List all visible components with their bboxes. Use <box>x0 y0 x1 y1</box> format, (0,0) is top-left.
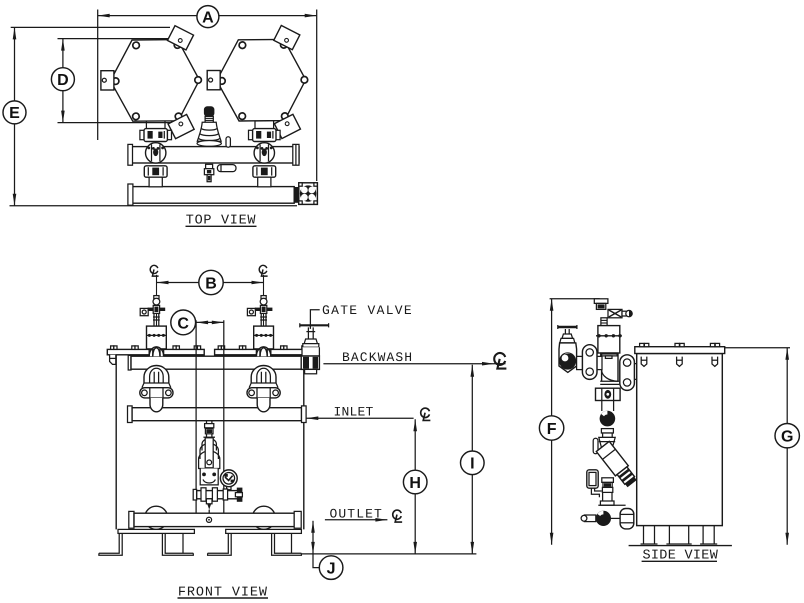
side view legs <box>641 526 718 544</box>
dimension F line <box>551 299 553 545</box>
black elbow ball <box>600 411 616 427</box>
tank 1 skirt band <box>118 529 194 533</box>
dimension A extension line left <box>97 10 99 141</box>
fitting below ball <box>601 429 613 433</box>
outlet pipe <box>134 513 294 526</box>
central control valve (top view) <box>197 106 236 182</box>
bottom ball valve <box>596 511 611 526</box>
hexagonal lid tank 1 <box>101 26 202 139</box>
hexagonal lid tank 2 <box>207 25 308 138</box>
dimension A line <box>98 15 317 17</box>
inlet pipe left flange <box>128 406 133 423</box>
pipe from gate valve to tee <box>577 356 602 369</box>
regulator drop to outlet pipe <box>206 499 212 504</box>
tank 2 valve centreline <box>263 275 265 349</box>
OUTLET label and leader <box>325 506 402 522</box>
leg 4 (angle with foot to right) <box>272 533 302 555</box>
balloon A <box>197 6 219 28</box>
tank 1 upper coupling arcs over backwash pipe <box>149 347 163 356</box>
balloon B <box>199 270 223 294</box>
tank 1 diffuser below backwash pipe <box>140 366 173 412</box>
tank 2 top-view valve <box>248 121 280 187</box>
tank 2 top valve (front view) <box>247 296 273 349</box>
svg-text:D: D <box>57 72 69 89</box>
centreline symbol above tank 2 valve <box>259 265 267 276</box>
threaded stem <box>601 318 607 326</box>
svg-text:H: H <box>409 475 421 492</box>
side view piping stack <box>594 299 632 359</box>
dimension H line <box>414 419 416 554</box>
tank 2 bottom head circle <box>252 506 275 529</box>
gate valve on backwash line (front view) <box>300 323 329 374</box>
outlet pipe left cap <box>129 511 134 528</box>
side gate valve stem <box>565 329 569 334</box>
INLET label and leader <box>306 405 430 421</box>
central pressure regulator assembly (front view) <box>193 421 242 514</box>
tank 2 diffuser below backwash pipe <box>247 366 280 412</box>
dimension G line <box>786 348 788 545</box>
svg-text:A: A <box>202 9 214 26</box>
dimension D line <box>62 39 64 123</box>
fittings below pipe <box>206 164 213 168</box>
balloon H <box>403 470 427 494</box>
bottom left stub <box>584 515 595 522</box>
balloon F <box>539 416 563 440</box>
balloon D <box>51 68 74 91</box>
regulator spring bell <box>203 436 215 438</box>
leg 2 (angle with foot to right) <box>162 533 193 555</box>
union coupling <box>596 388 621 400</box>
tank 2 upper coupling arcs over backwash pipe <box>256 347 270 356</box>
svg-text:OUTLET: OUTLET <box>330 506 383 521</box>
reducer <box>599 437 615 450</box>
small stub pin right of control valve <box>226 137 230 147</box>
side gate valve body <box>559 343 577 373</box>
elbow down <box>603 492 612 501</box>
balloon E <box>3 101 26 124</box>
outlet pipe right cap <box>294 511 301 528</box>
lower pipe end coupling <box>299 183 318 205</box>
backwash manifold pipe <box>131 356 308 369</box>
tank 1 bottom head circle <box>145 506 168 529</box>
svg-text:BACKWASH: BACKWASH <box>342 350 413 365</box>
regulator lower body <box>200 469 218 485</box>
tank 2 skirt band <box>226 529 302 533</box>
dimension A extension line right <box>316 10 318 182</box>
tank 2 flange plate <box>215 349 313 354</box>
riser pipe <box>602 401 614 412</box>
backwash pipe left cap <box>128 355 131 370</box>
upper pipe right cap <box>293 144 299 165</box>
flange left bracket <box>110 355 116 365</box>
balloon G <box>775 424 799 448</box>
tank 1 valve centreline <box>156 275 158 349</box>
svg-text:J: J <box>327 560 336 577</box>
lever handle <box>593 438 598 454</box>
side view base line <box>629 545 732 547</box>
dimension C line <box>196 321 224 323</box>
inlet pipe right flange <box>302 406 307 423</box>
balloon I <box>461 451 485 475</box>
tee elbow <box>602 354 618 381</box>
dimension E bottom extension line <box>10 205 298 207</box>
stub into tank <box>634 364 636 380</box>
tank 1 top valve (front view) <box>140 296 166 349</box>
centreline symbol above tank 1 valve <box>150 265 158 276</box>
tank 1 flange plate <box>107 349 204 354</box>
clamp details under flange <box>641 357 717 367</box>
tank 1 outer walls <box>115 355 117 530</box>
svg-text:I: I <box>470 456 474 473</box>
svg-text:E: E <box>9 105 20 122</box>
floor reference line <box>301 553 476 555</box>
side view tank flange <box>635 347 725 354</box>
balloon J <box>319 556 343 580</box>
upper pipe left cap <box>128 144 133 165</box>
svg-text:C: C <box>177 315 189 332</box>
inlet pipe <box>132 408 301 421</box>
svg-text:GATE VALVE: GATE VALVE <box>322 303 413 318</box>
dimension B line <box>157 282 264 284</box>
dimension F top extension line <box>550 298 600 300</box>
dimension D top extension line <box>58 38 169 40</box>
side gate valve handle <box>558 326 577 328</box>
dimension D bottom extension line <box>58 122 191 124</box>
svg-text:B: B <box>205 275 217 292</box>
flange bolts <box>111 346 309 350</box>
pressure gauge <box>220 470 237 487</box>
svg-text:F: F <box>547 421 557 438</box>
air release cylinder <box>598 326 620 353</box>
obround flange 2 <box>620 355 635 391</box>
dimension C extension lines (tank inner walls extended) <box>195 320 197 513</box>
outlet pipe bolt <box>206 517 211 522</box>
BACKWASH label and leader <box>323 350 506 368</box>
top air valve fitting <box>594 299 608 304</box>
obround flange 1 <box>582 345 597 380</box>
tank 1 top-view valve <box>140 121 172 187</box>
side view tank shell <box>637 354 723 526</box>
balloon C <box>171 310 196 335</box>
dimension G top extension line <box>725 347 790 349</box>
GATE VALVE label and leader <box>310 303 413 329</box>
dimension I line <box>471 365 473 554</box>
lower pipe left cap <box>128 184 133 205</box>
flange bolt tabs <box>640 343 720 346</box>
svg-text:G: G <box>781 429 793 446</box>
left pressure gauge <box>587 470 598 488</box>
leg 3 (angle with foot to left) <box>208 533 232 555</box>
lower manifold pipe (top view) <box>130 187 294 204</box>
lower manifold of regulator <box>197 491 241 499</box>
bottom connector to tank <box>620 509 634 529</box>
fittings below strainer <box>602 478 614 483</box>
svg-text:INLET: INLET <box>334 405 374 420</box>
upper manifold pipe (top view) <box>130 147 299 163</box>
dimension J line <box>312 521 314 554</box>
paddle handle <box>217 165 236 172</box>
Y-strainer body <box>596 441 638 488</box>
small valve to the right <box>608 309 622 317</box>
leg 1 (angle with foot to left) <box>99 533 122 555</box>
dimension E line <box>14 27 16 205</box>
dimension E top extension line <box>11 26 170 28</box>
lower pipe black collar <box>294 187 299 203</box>
